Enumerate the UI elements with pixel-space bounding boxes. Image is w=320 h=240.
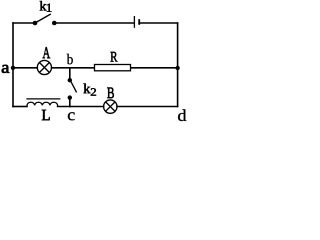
wire switch k2 down to node c <box>69 100 71 107</box>
lamp B <box>104 100 117 113</box>
wire battery to top-right corner <box>139 22 177 24</box>
switch k2 bottom contact dot <box>68 95 72 99</box>
label b <box>67 54 73 65</box>
wire lamp A through node b to resistor R <box>52 67 95 69</box>
switch k2 top contact dot <box>68 78 72 82</box>
label a <box>2 65 9 73</box>
label k1 <box>40 1 47 10</box>
switch k1 left contact dot <box>33 21 38 26</box>
wire left vertical <box>12 23 14 107</box>
wire inductor L through node c to lamp B <box>58 106 104 108</box>
node a dot <box>11 66 15 70</box>
switch k1 blade <box>35 14 51 23</box>
wire right vertical <box>177 23 179 107</box>
switch k1 right contact dot <box>52 21 57 26</box>
wire switch k1 to battery <box>54 22 134 24</box>
switch k2 blade <box>70 81 76 93</box>
label L <box>42 110 50 120</box>
lamp A <box>37 60 51 74</box>
label k1 subscript 1 <box>47 4 51 12</box>
wire node a to lamp A <box>13 67 37 69</box>
inductor L core bar <box>26 98 60 100</box>
wire resistor R to junction node near d <box>131 67 178 69</box>
wire lamp B to bottom-right corner <box>117 106 178 108</box>
battery cell long plate <box>133 16 135 28</box>
wire bottom-left to inductor L <box>13 106 27 108</box>
label R <box>111 52 118 62</box>
wire top-left to switch k1 <box>13 22 34 24</box>
label k2 <box>84 84 91 94</box>
resistor R <box>95 65 131 71</box>
inductor L coil <box>27 102 58 106</box>
wire node b down to switch k2 <box>69 68 71 78</box>
label c <box>68 112 75 120</box>
battery cell short plate <box>138 19 140 25</box>
label k2 subscript 2 <box>91 88 96 95</box>
label d <box>178 109 186 121</box>
label B <box>107 88 114 98</box>
label A <box>43 47 51 58</box>
junction node dot on right vertical <box>175 66 179 70</box>
